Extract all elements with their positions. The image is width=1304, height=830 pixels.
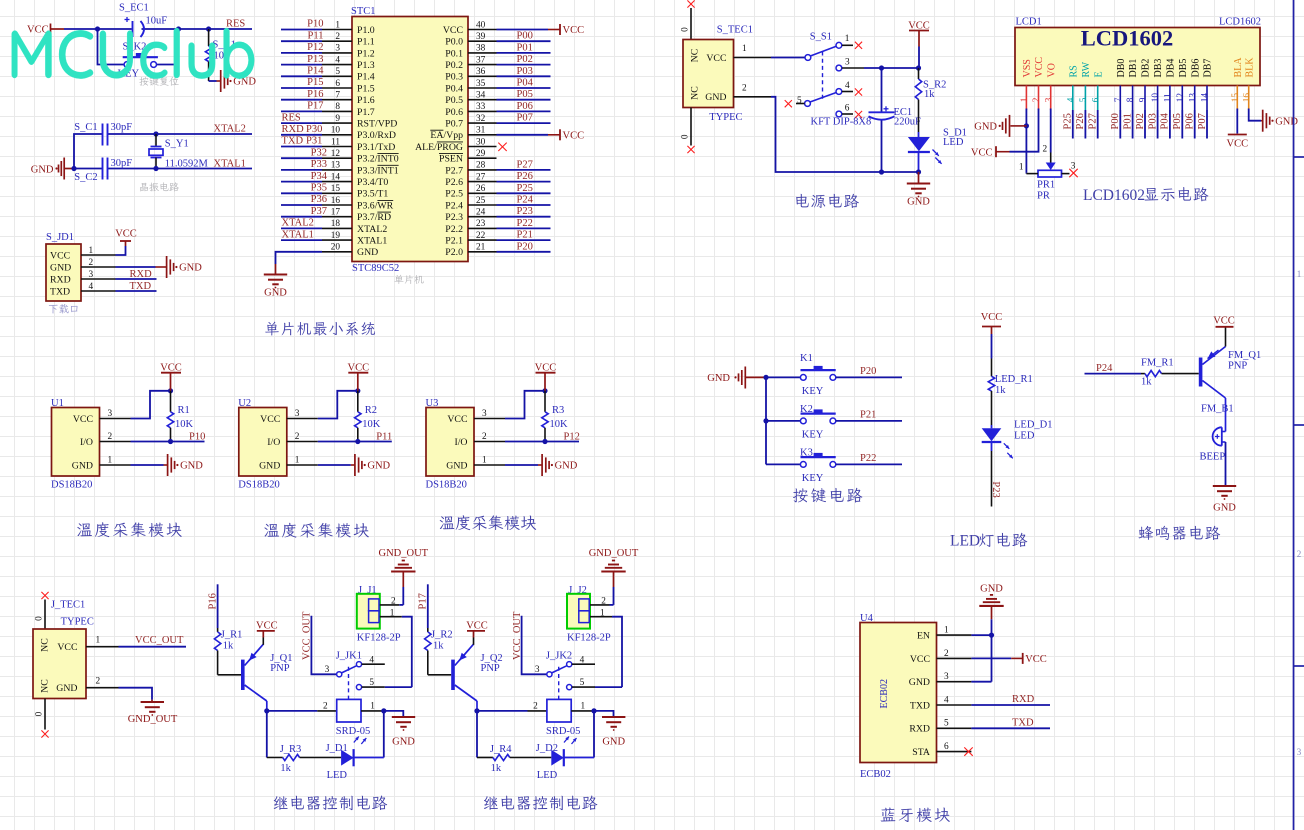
svg-text:DB3: DB3 <box>1153 59 1164 78</box>
svg-text:R1: R1 <box>178 405 190 416</box>
svg-text:1: 1 <box>89 246 94 256</box>
svg-text:KEY: KEY <box>802 429 824 440</box>
svg-text:22: 22 <box>476 231 486 241</box>
svg-text:DB1: DB1 <box>1128 59 1139 78</box>
svg-text:J_R4: J_R4 <box>490 744 512 755</box>
svg-text:GND: GND <box>72 460 93 471</box>
svg-text:GND: GND <box>1275 116 1298 127</box>
svg-text:P23: P23 <box>990 481 1001 497</box>
svg-text:P0.7: P0.7 <box>445 119 463 130</box>
svg-text:P20: P20 <box>860 366 876 377</box>
svg-text:P1.7: P1.7 <box>357 107 375 118</box>
svg-text:J_R3: J_R3 <box>280 744 302 755</box>
svg-text:P0.3: P0.3 <box>445 72 463 83</box>
svg-text:P10: P10 <box>189 432 205 443</box>
svg-text:TXD: TXD <box>282 136 304 147</box>
svg-text:P02: P02 <box>517 54 533 65</box>
svg-text:0: 0 <box>681 134 691 139</box>
svg-text:220uF: 220uF <box>894 117 921 128</box>
svg-text:2: 2 <box>482 432 487 442</box>
svg-text:P17: P17 <box>307 101 323 112</box>
svg-text:VCC: VCC <box>115 229 137 240</box>
svg-text:11: 11 <box>331 137 340 147</box>
svg-text:NC: NC <box>690 49 701 63</box>
svg-text:3: 3 <box>1044 97 1054 102</box>
svg-text:GND: GND <box>56 683 77 694</box>
svg-text:1: 1 <box>96 636 101 646</box>
svg-text:BLK: BLK <box>1244 57 1255 78</box>
svg-text:P0.1: P0.1 <box>445 48 463 59</box>
svg-text:P11: P11 <box>376 432 392 443</box>
svg-text:39: 39 <box>476 32 486 42</box>
svg-text:J_R1: J_R1 <box>221 630 243 641</box>
svg-text:TXD: TXD <box>910 700 930 711</box>
svg-text:LED: LED <box>1014 430 1035 441</box>
svg-text:30pF: 30pF <box>111 122 133 133</box>
svg-text:ECB02: ECB02 <box>860 769 891 780</box>
svg-text:GND: GND <box>907 197 930 208</box>
svg-text:16: 16 <box>1242 93 1252 103</box>
svg-text:S_C1: S_C1 <box>74 122 97 133</box>
svg-text:0: 0 <box>35 711 45 716</box>
svg-text:1k: 1k <box>280 763 291 774</box>
svg-text:VCC: VCC <box>447 414 467 425</box>
svg-text:TYPEC: TYPEC <box>709 112 742 123</box>
svg-text:VCC: VCC <box>256 620 278 631</box>
svg-text:4: 4 <box>335 55 340 65</box>
svg-text:1k: 1k <box>433 641 444 652</box>
svg-text:3: 3 <box>335 44 340 54</box>
svg-text:3: 3 <box>535 665 540 675</box>
svg-text:BEEP: BEEP <box>1200 451 1226 462</box>
svg-text:21: 21 <box>476 243 486 253</box>
svg-text:19: 19 <box>331 231 341 241</box>
svg-text:P25: P25 <box>1063 113 1074 129</box>
svg-text:J_D2: J_D2 <box>536 743 558 754</box>
svg-text:KF128-2P: KF128-2P <box>567 633 611 644</box>
svg-text:TYPEC: TYPEC <box>61 617 94 628</box>
svg-text:4: 4 <box>1066 97 1076 102</box>
svg-text:P04: P04 <box>1160 112 1171 129</box>
svg-text:P21: P21 <box>517 230 533 241</box>
svg-text:2: 2 <box>323 701 328 711</box>
svg-text:P22: P22 <box>517 218 533 229</box>
svg-text:2: 2 <box>108 432 113 442</box>
svg-text:XTAL2: XTAL2 <box>214 124 246 135</box>
svg-text:9: 9 <box>335 114 340 124</box>
svg-text:S_TEC1: S_TEC1 <box>717 25 753 36</box>
svg-text:1k: 1k <box>995 385 1006 396</box>
svg-text:P2.4: P2.4 <box>445 200 463 211</box>
svg-text:P13: P13 <box>307 54 323 65</box>
svg-text:GND: GND <box>259 460 280 471</box>
svg-text:VCC: VCC <box>443 25 463 36</box>
svg-text:P03: P03 <box>517 66 533 77</box>
svg-text:7: 7 <box>1114 97 1124 102</box>
svg-text:26: 26 <box>476 184 486 194</box>
svg-text:6: 6 <box>944 742 949 752</box>
svg-text:LED_D1: LED_D1 <box>1014 420 1053 431</box>
svg-text:P16: P16 <box>307 89 323 100</box>
svg-text:KEY: KEY <box>802 473 824 484</box>
svg-text:20: 20 <box>331 243 341 253</box>
svg-text:1: 1 <box>295 456 300 466</box>
svg-text:1: 1 <box>482 456 487 466</box>
svg-text:P2.0: P2.0 <box>445 247 463 258</box>
svg-text:4: 4 <box>369 655 374 665</box>
svg-text:4: 4 <box>944 695 949 705</box>
svg-text:P01: P01 <box>517 42 533 53</box>
svg-text:1k: 1k <box>1141 376 1152 387</box>
svg-text:P00: P00 <box>1110 113 1121 129</box>
svg-text:P12: P12 <box>307 42 323 53</box>
svg-text:10: 10 <box>1151 93 1161 103</box>
svg-text:P32: P32 <box>311 147 327 158</box>
svg-text:K2: K2 <box>800 404 813 415</box>
svg-text:P1.4: P1.4 <box>357 72 375 83</box>
svg-text:VCC: VCC <box>563 130 585 141</box>
svg-text:J_TEC1: J_TEC1 <box>51 600 85 611</box>
svg-text:9: 9 <box>1139 97 1149 102</box>
svg-text:6: 6 <box>845 103 850 113</box>
svg-text:VCC: VCC <box>563 25 585 36</box>
svg-text:P27: P27 <box>517 159 533 170</box>
svg-text:P03: P03 <box>1147 113 1158 129</box>
svg-text:P15: P15 <box>307 77 323 88</box>
svg-text:PR1: PR1 <box>1037 179 1055 190</box>
svg-text:LED: LED <box>950 533 980 550</box>
svg-text:P35: P35 <box>311 183 327 194</box>
svg-text:P07: P07 <box>1197 113 1208 129</box>
svg-text:BLA: BLA <box>1233 57 1244 78</box>
svg-text:2: 2 <box>944 649 949 659</box>
svg-text:P22: P22 <box>860 453 876 464</box>
svg-text:1: 1 <box>1019 163 1024 173</box>
svg-text:10: 10 <box>331 126 341 136</box>
svg-text:32: 32 <box>476 114 486 124</box>
svg-text:VCC: VCC <box>260 414 280 425</box>
svg-text:SRD-05: SRD-05 <box>546 726 580 737</box>
svg-text:PNP: PNP <box>270 663 289 674</box>
svg-text:30pF: 30pF <box>111 158 133 169</box>
svg-text:RES: RES <box>282 112 301 123</box>
svg-text:P26: P26 <box>517 171 533 182</box>
svg-text:P33: P33 <box>311 159 327 170</box>
svg-text:P31: P31 <box>306 136 322 147</box>
svg-text:2: 2 <box>533 701 538 711</box>
svg-text:STC1: STC1 <box>351 6 376 17</box>
svg-text:1: 1 <box>1020 97 1030 102</box>
svg-text:8: 8 <box>1126 97 1136 102</box>
svg-text:S_S1: S_S1 <box>810 31 832 42</box>
svg-text:38: 38 <box>476 44 486 54</box>
svg-text:GND: GND <box>357 247 378 258</box>
svg-text:1k: 1k <box>491 763 502 774</box>
svg-text:DB5: DB5 <box>1178 59 1189 78</box>
svg-text:1: 1 <box>390 608 395 618</box>
svg-text:P3.5/T1: P3.5/T1 <box>357 189 388 200</box>
svg-text:2: 2 <box>96 677 101 687</box>
svg-text:VCC: VCC <box>466 620 488 631</box>
svg-text:P2.1: P2.1 <box>445 236 463 247</box>
svg-text:LCD1602: LCD1602 <box>1083 187 1145 204</box>
svg-text:DB6: DB6 <box>1190 59 1201 78</box>
svg-text:S_Y1: S_Y1 <box>165 138 189 149</box>
svg-text:4: 4 <box>580 655 585 665</box>
svg-text:P37: P37 <box>311 206 327 217</box>
svg-text:I/O: I/O <box>267 437 280 448</box>
svg-text:4: 4 <box>89 282 94 292</box>
svg-text:2: 2 <box>1043 145 1048 155</box>
svg-text:R3: R3 <box>552 405 564 416</box>
svg-text:K1: K1 <box>800 353 813 364</box>
svg-text:P00: P00 <box>517 31 533 42</box>
svg-text:2: 2 <box>295 432 300 442</box>
svg-text:P11: P11 <box>308 30 324 41</box>
svg-text:TXD: TXD <box>130 281 152 292</box>
svg-text:P34: P34 <box>311 171 328 182</box>
svg-text:24: 24 <box>476 208 486 218</box>
svg-text:RXD: RXD <box>282 124 305 135</box>
svg-text:1: 1 <box>581 701 586 711</box>
svg-text:J_JK1: J_JK1 <box>336 651 362 662</box>
svg-text:GND: GND <box>555 461 578 472</box>
svg-text:6: 6 <box>335 79 340 89</box>
svg-text:DB7: DB7 <box>1203 59 1214 78</box>
svg-text:28: 28 <box>476 161 486 171</box>
svg-text:7: 7 <box>335 91 340 101</box>
svg-text:P23: P23 <box>517 206 533 217</box>
svg-text:GND_OUT: GND_OUT <box>589 548 639 559</box>
svg-text:RS: RS <box>1068 65 1079 77</box>
svg-text:VCC: VCC <box>1034 57 1045 78</box>
svg-text:RW: RW <box>1081 61 1092 77</box>
svg-text:18: 18 <box>331 219 341 229</box>
svg-text:P1.1: P1.1 <box>357 37 375 48</box>
svg-text:15: 15 <box>331 184 341 194</box>
svg-text:P05: P05 <box>517 89 533 100</box>
svg-text:XTAL1: XTAL1 <box>282 229 314 240</box>
svg-text:LCD1: LCD1 <box>1016 17 1042 28</box>
svg-text:2: 2 <box>601 597 606 607</box>
svg-text:P3.2/INT0: P3.2/INT0 <box>357 154 399 165</box>
svg-text:VCC: VCC <box>1025 654 1047 665</box>
svg-text:P10: P10 <box>307 19 323 30</box>
svg-text:P2.3: P2.3 <box>445 212 463 223</box>
svg-text:LCD1602: LCD1602 <box>1219 17 1261 28</box>
svg-text:P27: P27 <box>1088 113 1099 129</box>
svg-text:P25: P25 <box>517 183 533 194</box>
svg-text:P3.3/INT1: P3.3/INT1 <box>357 165 399 176</box>
svg-text:VCC: VCC <box>50 250 70 261</box>
svg-text:P21: P21 <box>860 410 876 421</box>
svg-text:3: 3 <box>89 270 94 280</box>
svg-text:GND: GND <box>446 460 467 471</box>
svg-text:FM_Q1: FM_Q1 <box>1228 350 1261 361</box>
svg-text:P1.6: P1.6 <box>357 95 375 106</box>
svg-text:VCC: VCC <box>981 312 1003 323</box>
svg-text:P0.6: P0.6 <box>445 107 463 118</box>
svg-text:FM_R1: FM_R1 <box>1141 357 1174 368</box>
svg-text:P2.7: P2.7 <box>445 165 463 176</box>
svg-text:R2: R2 <box>365 405 377 416</box>
svg-text:2: 2 <box>89 258 94 268</box>
svg-text:GND: GND <box>980 583 1003 594</box>
svg-text:2: 2 <box>1032 97 1042 102</box>
svg-text:10K: 10K <box>550 419 569 430</box>
svg-text:P3.4/T0: P3.4/T0 <box>357 177 388 188</box>
svg-text:GND: GND <box>974 122 997 133</box>
svg-text:GND: GND <box>392 737 415 748</box>
svg-text:3: 3 <box>845 58 850 68</box>
svg-text:P20: P20 <box>517 241 533 252</box>
svg-text:1k: 1k <box>924 89 935 100</box>
svg-text:RST/VPD: RST/VPD <box>357 119 397 130</box>
svg-text:P36: P36 <box>311 194 327 205</box>
svg-text:GND: GND <box>50 262 71 273</box>
svg-text:J_D1: J_D1 <box>326 743 348 754</box>
svg-text:P14: P14 <box>307 66 324 77</box>
svg-text:J_JK2: J_JK2 <box>546 651 572 662</box>
svg-text:P06: P06 <box>517 101 533 112</box>
svg-text:1: 1 <box>1297 269 1302 279</box>
svg-text:11: 11 <box>1164 93 1174 102</box>
svg-text:LED: LED <box>537 770 558 781</box>
svg-text:17: 17 <box>331 208 341 218</box>
svg-text:1: 1 <box>845 34 850 44</box>
svg-text:3: 3 <box>325 665 330 675</box>
svg-text:FM_B1: FM_B1 <box>1201 404 1234 415</box>
svg-text:GND: GND <box>264 288 287 299</box>
svg-text:14: 14 <box>331 172 341 182</box>
svg-text:VCC: VCC <box>910 654 930 665</box>
svg-text:1: 1 <box>944 626 949 636</box>
svg-text:P24: P24 <box>1096 363 1113 374</box>
svg-text:GND_OUT: GND_OUT <box>128 714 178 725</box>
svg-text:P3.6/WR: P3.6/WR <box>357 200 394 211</box>
svg-text:2: 2 <box>391 597 396 607</box>
svg-text:GND: GND <box>602 737 625 748</box>
svg-text:EA/Vpp: EA/Vpp <box>430 130 463 141</box>
svg-text:S_C2: S_C2 <box>74 172 97 183</box>
svg-text:P1.5: P1.5 <box>357 83 375 94</box>
svg-text:12: 12 <box>331 149 341 159</box>
svg-text:P2.6: P2.6 <box>445 177 463 188</box>
svg-text:P0.2: P0.2 <box>445 60 463 71</box>
svg-text:E: E <box>1093 71 1104 77</box>
svg-text:RXD: RXD <box>50 274 71 285</box>
svg-text:13: 13 <box>1188 93 1198 103</box>
svg-text:1: 1 <box>335 20 340 30</box>
svg-text:27: 27 <box>476 172 486 182</box>
svg-text:P3.1/TxD: P3.1/TxD <box>357 142 395 153</box>
svg-text:1: 1 <box>742 44 747 54</box>
svg-text:1: 1 <box>108 456 113 466</box>
svg-text:40: 40 <box>476 20 486 30</box>
svg-text:LCD1602: LCD1602 <box>1081 26 1174 51</box>
svg-text:P3.0/RxD: P3.0/RxD <box>357 130 396 141</box>
svg-text:GND: GND <box>909 677 930 688</box>
svg-text:P12: P12 <box>564 432 580 443</box>
svg-text:VCC: VCC <box>57 642 77 653</box>
svg-text:GND: GND <box>705 92 726 103</box>
svg-text:5: 5 <box>369 678 374 688</box>
svg-text:P06: P06 <box>1185 113 1196 129</box>
svg-text:NC: NC <box>40 638 51 652</box>
svg-text:5: 5 <box>580 678 585 688</box>
svg-text:K3: K3 <box>800 448 813 459</box>
svg-text:P0.4: P0.4 <box>445 83 463 94</box>
svg-text:36: 36 <box>476 67 486 77</box>
svg-text:S_EC1: S_EC1 <box>119 3 149 14</box>
svg-text:13: 13 <box>331 161 341 171</box>
svg-text:12: 12 <box>1176 93 1186 103</box>
svg-text:0: 0 <box>681 27 691 32</box>
svg-text:DB0: DB0 <box>1116 59 1127 78</box>
svg-text:33: 33 <box>476 102 486 112</box>
svg-text:EN: EN <box>917 631 930 642</box>
svg-text:3: 3 <box>108 409 113 419</box>
svg-text:STA: STA <box>912 747 930 758</box>
svg-text:3: 3 <box>944 672 949 682</box>
svg-text:37: 37 <box>476 55 486 65</box>
svg-text:1k: 1k <box>223 641 234 652</box>
svg-text:P01: P01 <box>1122 113 1133 129</box>
svg-text:2: 2 <box>1297 549 1302 559</box>
svg-text:4: 4 <box>845 81 850 91</box>
svg-text:STC89C52: STC89C52 <box>352 263 399 274</box>
svg-text:P26: P26 <box>1075 113 1086 129</box>
svg-text:P04: P04 <box>517 78 534 89</box>
svg-text:I/O: I/O <box>454 437 467 448</box>
svg-text:3: 3 <box>1071 162 1076 172</box>
svg-text:35: 35 <box>476 79 486 89</box>
svg-text:34: 34 <box>476 91 486 101</box>
svg-text:VCC: VCC <box>1213 316 1235 327</box>
svg-text:GND: GND <box>1213 503 1236 514</box>
svg-text:5: 5 <box>944 719 949 729</box>
svg-text:J_R2: J_R2 <box>431 630 453 641</box>
svg-text:P0.0: P0.0 <box>445 37 463 48</box>
svg-text:PNP: PNP <box>1228 361 1247 372</box>
svg-text:29: 29 <box>476 149 486 159</box>
svg-text:P30: P30 <box>306 124 322 135</box>
svg-text:DS18B20: DS18B20 <box>426 480 467 491</box>
svg-text:RXD: RXD <box>909 724 930 735</box>
svg-text:0: 0 <box>35 616 45 621</box>
svg-text:P2.5: P2.5 <box>445 189 463 200</box>
svg-text:DB4: DB4 <box>1166 59 1177 78</box>
svg-text:P02: P02 <box>1135 113 1146 129</box>
svg-text:GND: GND <box>367 461 390 472</box>
svg-text:LED: LED <box>327 770 348 781</box>
svg-text:1: 1 <box>600 608 605 618</box>
svg-text:VCC_OUT: VCC_OUT <box>135 635 184 646</box>
svg-text:GND: GND <box>179 263 202 274</box>
svg-text:ALE/PROG: ALE/PROG <box>415 142 463 153</box>
svg-text:GND: GND <box>31 164 54 175</box>
svg-text:VCC: VCC <box>971 147 993 158</box>
svg-text:P07: P07 <box>517 113 533 124</box>
svg-text:8: 8 <box>335 102 340 112</box>
svg-text:1: 1 <box>370 701 375 711</box>
svg-text:RXD: RXD <box>130 269 153 280</box>
svg-text:P1.3: P1.3 <box>357 60 375 71</box>
svg-text:P1.2: P1.2 <box>357 48 375 59</box>
svg-text:LED_R1: LED_R1 <box>995 374 1033 385</box>
svg-text:2: 2 <box>335 32 340 42</box>
svg-text:DB2: DB2 <box>1141 59 1152 78</box>
